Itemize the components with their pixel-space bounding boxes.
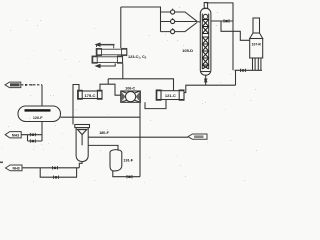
svg-text:105-D: 105-D xyxy=(182,48,193,53)
svg-text:NH3: NH3 xyxy=(12,167,19,171)
svg-text:NH3: NH3 xyxy=(12,134,19,138)
svg-text:180-F: 180-F xyxy=(99,131,109,135)
svg-text:126-F: 126-F xyxy=(33,116,43,120)
svg-text:123-C1, C2: 123-C1, C2 xyxy=(128,55,147,60)
svg-text:191-F: 191-F xyxy=(123,159,133,163)
svg-text:175-C: 175-C xyxy=(84,93,95,98)
svg-text:107-R: 107-R xyxy=(252,43,262,47)
svg-text:121-C: 121-C xyxy=(165,93,176,98)
svg-text:106-C: 106-C xyxy=(125,86,135,90)
